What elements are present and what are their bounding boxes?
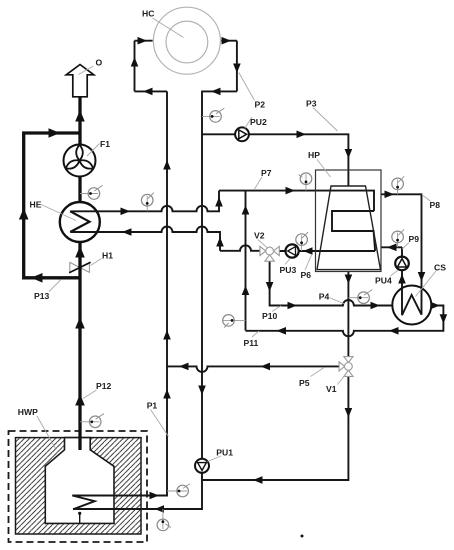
- label P5: [299, 367, 325, 388]
- sensor on P8 line: [392, 176, 404, 194]
- pump PU4: [395, 257, 409, 271]
- label P11: [244, 331, 260, 348]
- label P9: [402, 234, 419, 249]
- svg-text:P10: P10: [262, 311, 278, 321]
- wire riser P11 to P7: [245, 191, 247, 331]
- wire V2 left branch with jump: [220, 245, 260, 250]
- svg-text:P9: P9: [409, 234, 420, 244]
- valve H1 bowtie: [69, 262, 90, 273]
- label CS: [416, 263, 447, 297]
- svg-text:HE: HE: [30, 200, 42, 210]
- svg-text:P11: P11: [244, 338, 259, 348]
- flow arrows down: [198, 64, 447, 418]
- wire P8 from HP right into CS: [381, 194, 422, 314]
- wire HE top outlet with jumps, riser to P7: [70, 191, 219, 212]
- sensor on HWP outlet: [167, 484, 190, 497]
- wire HC right drop: [236, 41, 238, 92]
- svg-text:P8: P8: [430, 200, 441, 210]
- flow arrows left: [122, 88, 399, 513]
- HP box: [316, 170, 382, 272]
- label F1: [87, 139, 110, 156]
- svg-text:P5: P5: [299, 378, 310, 388]
- sensor above HWP: [80, 414, 104, 428]
- wire P7 into HP: [219, 191, 374, 211]
- svg-text:F1: F1: [100, 139, 110, 149]
- svg-text:P6: P6: [301, 270, 312, 280]
- label HWP: [18, 407, 56, 449]
- label PU1: [208, 447, 234, 461]
- sensor near F1: [80, 185, 103, 199]
- wire HC bottom left segment: [135, 90, 168, 92]
- label PU4: [375, 270, 398, 285]
- wire PU2 line and P3 drop into HP: [202, 134, 348, 186]
- F1 blades: [64, 145, 94, 171]
- coil stem node in HWP: [78, 512, 81, 524]
- sensor on drop line below HC: [202, 108, 224, 122]
- label P10: [262, 306, 281, 321]
- three-way valve V1: [339, 357, 353, 377]
- label P12: [83, 381, 112, 399]
- label HE: [30, 200, 77, 221]
- label P1: [147, 401, 169, 437]
- label P3: [306, 98, 338, 131]
- wire V2 bottom P10 to CS: [270, 261, 393, 305]
- HWP dashed enclosure: [9, 431, 148, 542]
- sensor on P9 line: [392, 229, 404, 247]
- svg-text:P1: P1: [147, 401, 158, 411]
- svg-text:P4: P4: [319, 292, 330, 302]
- label P2: [239, 73, 265, 110]
- wire main drop with PU1 into HWP coil: [73, 91, 202, 509]
- label H1: [91, 251, 114, 266]
- three-way valve V2: [260, 246, 279, 261]
- svg-text:PU3: PU3: [280, 265, 297, 275]
- svg-text:P12: P12: [96, 381, 112, 391]
- svg-text:PU4: PU4: [375, 276, 392, 286]
- HWP inner cavity: [45, 438, 114, 524]
- wire HC top right segment: [221, 40, 237, 42]
- bold flow arrows: [19, 110, 85, 406]
- sensor on P11 riser: [223, 315, 246, 328]
- wire CS internal peak: [402, 295, 422, 315]
- label PU3: [280, 259, 297, 275]
- label P7: [255, 168, 272, 189]
- heat consumer HC outer circle: [153, 7, 220, 74]
- label HP: [308, 150, 331, 177]
- wire V1 bottom drop and return to PU1 line: [202, 376, 348, 480]
- wire P1 riser from HWP coil to HC: [72, 91, 167, 495]
- heat exchanger HE circle: [60, 202, 100, 242]
- HWP coil zigzag: [72, 496, 94, 510]
- sensor on P4 line: [348, 290, 372, 304]
- wire bold bypass loop P13: [24, 133, 80, 278]
- wire HP S-duct middle: [332, 211, 375, 251]
- label P13: [34, 280, 61, 302]
- wire HC left riser: [134, 41, 136, 92]
- fan F1 circle: [64, 145, 96, 177]
- svg-text:V2: V2: [254, 231, 265, 241]
- svg-text:H1: H1: [102, 251, 113, 261]
- svg-text:P3: P3: [306, 98, 317, 108]
- HC inner circle: [166, 21, 208, 63]
- svg-text:HC: HC: [142, 8, 154, 18]
- wire HC bottom right segment: [201, 90, 237, 92]
- label HC: [142, 8, 184, 37]
- hot water pool HWP hatched wall: [16, 438, 142, 534]
- label P6: [301, 255, 312, 280]
- svg-text:HP: HP: [308, 150, 320, 160]
- wire bold main riser P12 (HWP to O): [78, 97, 81, 450]
- sensor on HE outlet line: [141, 193, 153, 212]
- svg-text:P2: P2: [255, 100, 266, 110]
- wire CS right outlet and P11 return with jump: [246, 306, 444, 337]
- label V1: [326, 374, 347, 394]
- stray dot: [301, 535, 304, 538]
- svg-text:HWP: HWP: [18, 407, 38, 417]
- wire HC top left segment: [135, 40, 153, 42]
- wire P6 line HP to PU3 to V2: [279, 250, 375, 252]
- svg-text:V1: V1: [326, 384, 337, 394]
- label P4: [319, 292, 345, 305]
- sensor on P7 at HP: [299, 173, 312, 191]
- label P8: [422, 195, 440, 210]
- flow arrows right: [121, 37, 441, 499]
- sensor on HWP inlet: [157, 509, 171, 531]
- label PU2: [245, 117, 267, 128]
- svg-text:CS: CS: [434, 263, 446, 273]
- HE internal zigzag: [70, 211, 89, 232]
- wire P9 PU4 line from CS to HP: [381, 247, 402, 315]
- svg-text:PU1: PU1: [216, 447, 233, 457]
- sensor on P6 line: [296, 232, 308, 251]
- svg-text:P7: P7: [261, 168, 272, 178]
- pump PU2: [235, 127, 249, 141]
- wire HP bottom drop to V1: [347, 272, 349, 357]
- label O: [79, 58, 103, 75]
- flow arrows up: [131, 57, 406, 399]
- svg-text:PU2: PU2: [250, 117, 267, 127]
- pump PU3: [286, 244, 299, 257]
- wire P5 V1 to P1 riser with jump: [167, 366, 339, 372]
- svg-text:O: O: [96, 58, 103, 68]
- pump PU1: [195, 459, 209, 473]
- cold source CS circle: [392, 286, 431, 325]
- wire HE bottom return with jumps: [70, 227, 220, 251]
- label V2: [254, 231, 268, 249]
- HP trapezoid: [317, 186, 381, 270]
- svg-text:P13: P13: [34, 291, 50, 301]
- outlet arrow O: [66, 65, 94, 97]
